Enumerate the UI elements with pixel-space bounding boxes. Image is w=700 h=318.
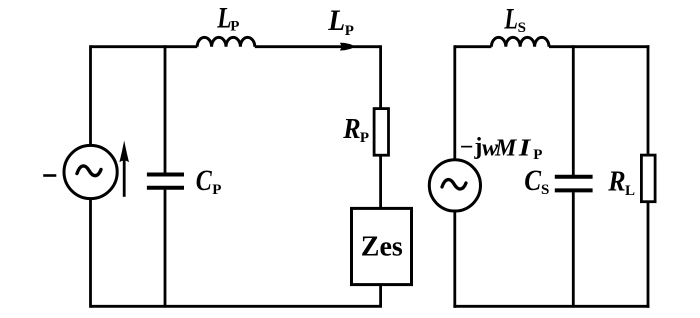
svg-text:S: S xyxy=(518,20,526,36)
svg-text:P: P xyxy=(345,23,354,39)
wire left-loop top from coil to corner xyxy=(255,45,381,48)
impedance box Zes xyxy=(352,208,412,284)
capacitor CS bottom plate xyxy=(555,188,593,192)
svg-text:P: P xyxy=(230,19,239,35)
wire left-loop top from source branch to inductor xyxy=(91,45,198,48)
label RP xyxy=(342,112,369,147)
label LS above coil xyxy=(504,1,526,36)
svg-text:I: I xyxy=(518,134,532,161)
capacitor CS top plate xyxy=(555,175,593,179)
capacitor CP bottom plate xyxy=(147,186,184,190)
current direction arrow (vertical, right of source) xyxy=(119,141,129,197)
svg-text:P: P xyxy=(533,147,542,163)
wire left-loop left lower xyxy=(89,198,92,308)
AC source circle (left) xyxy=(64,145,117,198)
inductor LS coil xyxy=(491,37,549,46)
svg-text:C: C xyxy=(524,163,541,197)
label CP xyxy=(196,163,222,198)
wire right-loop right lower xyxy=(647,202,650,308)
resistor RP body xyxy=(374,109,388,156)
wire CS branch upper xyxy=(572,45,575,175)
wire CS branch lower xyxy=(572,192,575,306)
sine wave inside left source xyxy=(77,166,101,176)
wire left-loop left upper xyxy=(89,45,92,146)
svg-text:P: P xyxy=(360,130,369,146)
label LP above coil xyxy=(216,1,239,35)
wire CP branch upper xyxy=(164,45,167,173)
svg-text:S: S xyxy=(541,182,549,198)
wire Zes box to bottom wire xyxy=(379,285,382,307)
wire right-loop top left segment xyxy=(455,45,492,48)
wire right-loop top right segment xyxy=(549,45,649,48)
current arrowhead on top wire xyxy=(340,43,356,51)
inductor LP coil xyxy=(197,37,255,46)
sine wave inside right source xyxy=(442,180,466,189)
AC source circle (right, dependent source) xyxy=(429,160,480,211)
svg-text:R: R xyxy=(607,164,625,197)
wire CP branch lower xyxy=(164,190,167,307)
wire middle branch corner down to resistor RP xyxy=(379,45,382,109)
svg-text:R: R xyxy=(342,112,360,145)
svg-text:L: L xyxy=(327,4,345,37)
svg-text:P: P xyxy=(212,182,221,198)
wire right-loop left lower xyxy=(453,210,456,308)
resistor RL body xyxy=(641,155,655,202)
wire from RP to Zes box xyxy=(379,155,382,208)
wire right-loop bottom xyxy=(453,305,649,308)
wire right-loop right upper xyxy=(647,45,650,155)
svg-text:−: − xyxy=(460,135,474,161)
wire left-loop bottom xyxy=(91,305,383,308)
minus sign left of source xyxy=(43,174,56,177)
capacitor CP top plate xyxy=(147,173,184,177)
svg-text:L: L xyxy=(625,183,635,199)
label -jwMI_P xyxy=(460,134,543,163)
label LP current label above arrow xyxy=(327,4,354,39)
svg-text:M: M xyxy=(494,136,518,162)
label CS xyxy=(524,163,549,198)
label RL xyxy=(607,164,635,199)
svg-text:C: C xyxy=(196,163,213,196)
svg-text:Zes: Zes xyxy=(361,231,403,262)
wire right-loop left upper xyxy=(453,45,456,161)
svg-text:L: L xyxy=(504,1,518,35)
